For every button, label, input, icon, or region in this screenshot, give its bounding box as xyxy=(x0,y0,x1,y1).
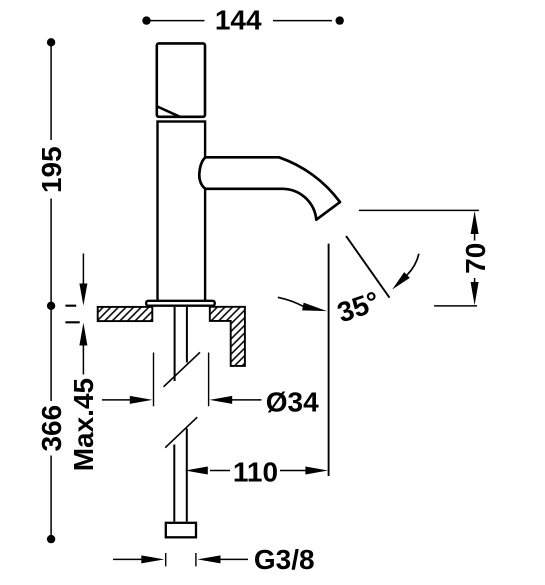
svg-text:Ø34: Ø34 xyxy=(266,387,319,418)
svg-text:144: 144 xyxy=(215,5,262,36)
svg-text:Max.45: Max.45 xyxy=(68,378,99,471)
svg-text:G3/8: G3/8 xyxy=(254,544,315,575)
svg-text:70: 70 xyxy=(460,243,491,274)
svg-text:366: 366 xyxy=(36,405,67,452)
svg-text:110: 110 xyxy=(233,456,278,487)
svg-text:195: 195 xyxy=(36,146,67,193)
